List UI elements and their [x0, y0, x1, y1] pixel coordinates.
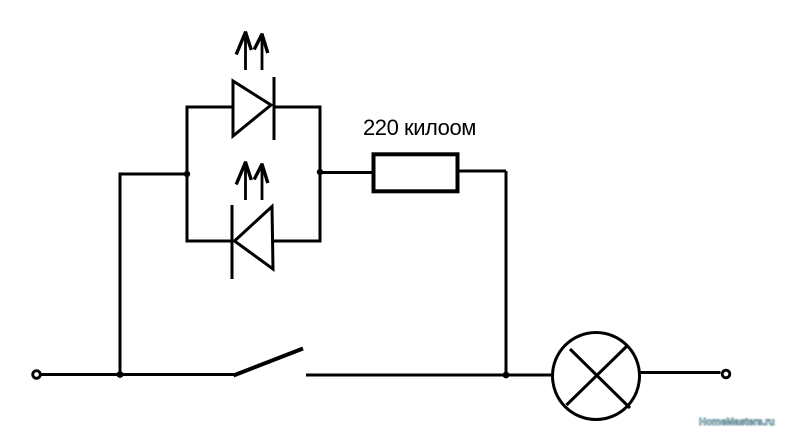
wire lamp to right terminal	[640, 371, 721, 374]
junction dot LED box right	[317, 169, 323, 175]
wire resistor to riser	[460, 170, 507, 173]
wire switch to lamp	[306, 374, 553, 377]
LED D1 light arrows	[236, 32, 268, 71]
wire bottom branch left	[187, 240, 232, 243]
wire top branch left	[187, 106, 233, 109]
wire top branch right	[274, 106, 321, 109]
LED D1 (top, anode left)	[233, 77, 274, 140]
wire vertical riser left	[120, 174, 187, 375]
wire vertical riser right	[505, 171, 508, 375]
LED D2 (bottom, anode right)	[232, 205, 273, 279]
resistor R1	[374, 154, 458, 191]
lamp HL1	[553, 333, 640, 420]
watermark HomeMasters.ru	[699, 417, 775, 428]
terminal right	[722, 370, 730, 378]
junction dot bottom-left	[117, 371, 124, 378]
wire bottom branch right	[273, 240, 320, 243]
LED D2 light arrows	[236, 162, 268, 201]
wire LED box to resistor	[320, 171, 372, 174]
value label 220 kiloohm	[363, 115, 476, 141]
wire LED box left vertical	[186, 106, 189, 243]
junction dot bottom-right	[503, 372, 510, 379]
wire LED box right vertical	[319, 106, 322, 243]
switch S1 (open)	[234, 349, 304, 376]
junction dot LED box left	[184, 171, 190, 177]
wire left terminal to switch	[41, 373, 234, 376]
terminal left	[33, 371, 41, 379]
